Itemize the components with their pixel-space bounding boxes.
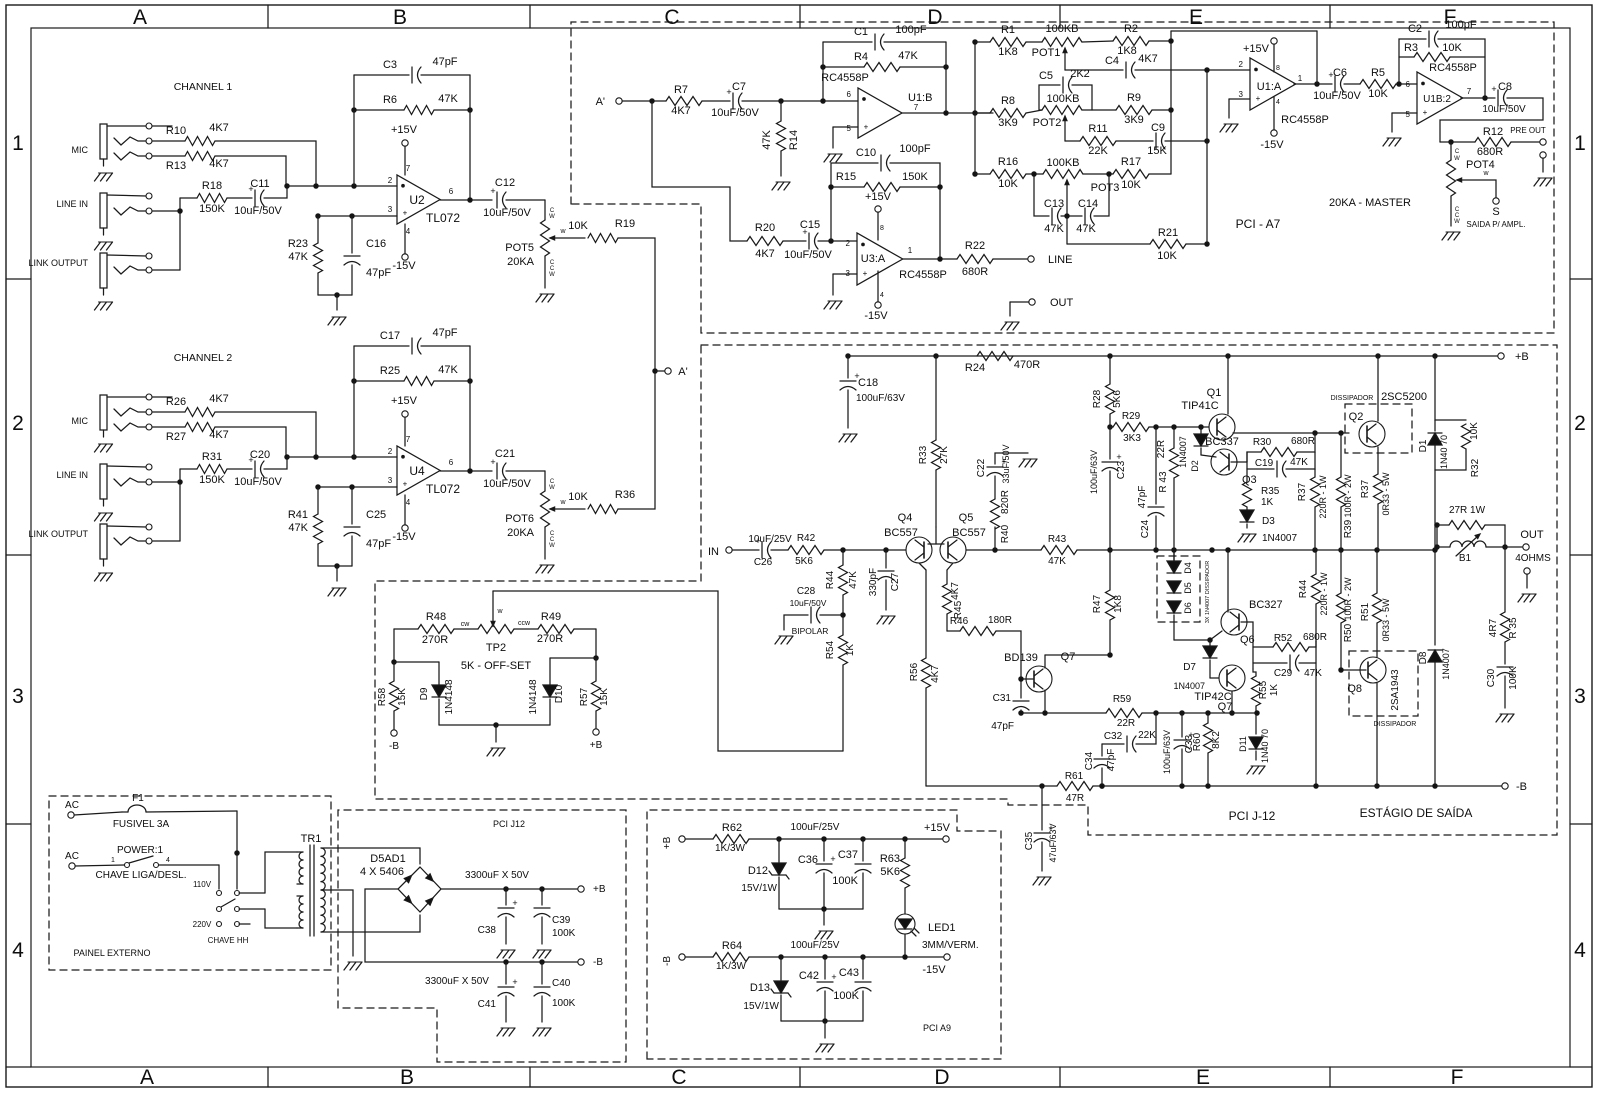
diode D4 — [1167, 550, 1193, 574]
resistor R35 4R7 zobel — [1488, 547, 1519, 664]
wire secondary top — [321, 848, 420, 864]
svg-text:+B: +B — [593, 884, 606, 895]
svg-text:DISSIPADOR: DISSIPADOR — [1331, 395, 1374, 402]
svg-text:MIC: MIC — [72, 416, 89, 426]
diode D2 1N4007 — [1178, 427, 1208, 472]
svg-text:R8: R8 — [1001, 95, 1015, 107]
resistor R60 8K2 — [1192, 713, 1222, 786]
svg-text:5K6: 5K6 — [1112, 390, 1123, 408]
trimpot TP2 5K — [461, 591, 843, 751]
resistor R28 5K6 — [1092, 356, 1123, 429]
svg-text:1K8: 1K8 — [998, 46, 1018, 58]
svg-text:R40: R40 — [1000, 524, 1011, 543]
terminal speaker return — [1524, 568, 1530, 588]
resistor R37 0R33-5W — [1360, 472, 1391, 550]
svg-text:B: B — [400, 1066, 414, 1089]
dashed box PCI J-12 power amp section — [375, 345, 1557, 835]
jack LINE IN channel 2 — [56, 464, 152, 521]
svg-text:6: 6 — [449, 187, 454, 196]
dashed box PCI A9 regulator — [647, 810, 1001, 1059]
svg-text:680R: 680R — [1477, 146, 1503, 158]
svg-text:3: 3 — [388, 205, 393, 214]
svg-text:C24: C24 — [1140, 519, 1151, 538]
svg-text:8K2: 8K2 — [1211, 731, 1222, 749]
svg-text:A': A' — [596, 96, 605, 108]
svg-text:33uF/50V: 33uF/50V — [1001, 444, 1011, 483]
svg-text:LINK OUTPUT: LINK OUTPUT — [28, 529, 88, 539]
wire tone stack right vertical — [1169, 31, 1317, 174]
svg-text:U1:B: U1:B — [908, 92, 932, 104]
svg-text:R25: R25 — [380, 365, 400, 377]
svg-text:47pF: 47pF — [1137, 486, 1148, 509]
svg-text:100pF: 100pF — [895, 24, 926, 36]
svg-text:C32: C32 — [1104, 731, 1123, 742]
svg-text:C14: C14 — [1078, 198, 1098, 210]
svg-text:E: E — [1196, 1066, 1210, 1089]
svg-text:U1:A: U1:A — [1257, 81, 1282, 93]
diode D8 1N4007 — [1418, 550, 1451, 786]
svg-text:PAINEL EXTERNO: PAINEL EXTERNO — [73, 948, 150, 958]
svg-text:47K: 47K — [1076, 223, 1096, 235]
ground — [1518, 594, 1536, 602]
capacitor C22 33uF/50V — [976, 444, 1028, 483]
svg-text:R35: R35 — [1261, 486, 1280, 497]
ground — [1534, 178, 1552, 186]
svg-text:F1: F1 — [132, 793, 144, 804]
resistor R45 4K7 — [943, 563, 965, 631]
terminal -15V — [922, 954, 950, 976]
svg-text:+B: +B — [1515, 351, 1529, 363]
svg-text:6: 6 — [1406, 80, 1411, 89]
text CW CCW — [461, 620, 531, 628]
resistor R9 3K9 — [1082, 92, 1171, 126]
svg-text:20KA - MASTER: 20KA - MASTER — [1329, 197, 1411, 209]
resistor R39 100R-2W — [1337, 433, 1355, 550]
transformer TR1 — [297, 833, 325, 936]
ground — [775, 636, 793, 644]
svg-text:20KA: 20KA — [507, 256, 535, 268]
svg-text:10uF/50V: 10uF/50V — [790, 598, 827, 608]
svg-text:TL072: TL072 — [426, 211, 460, 225]
wire inverting input node — [287, 184, 397, 188]
svg-text:IN: IN — [708, 546, 719, 558]
svg-text:D4: D4 — [1183, 562, 1193, 574]
resistor R26 4K7 — [152, 393, 316, 457]
svg-text:10uF/50V: 10uF/50V — [483, 207, 531, 219]
svg-text:+B: +B — [662, 836, 673, 849]
svg-text:A: A — [133, 6, 147, 29]
svg-text:POWER:1: POWER:1 — [117, 845, 164, 856]
svg-text:-15V: -15V — [864, 310, 888, 322]
svg-text:10K: 10K — [1442, 42, 1462, 54]
terminal AC line 1 — [65, 800, 122, 818]
capacitor C42 100uF — [799, 957, 837, 1021]
wire offset right — [550, 629, 598, 660]
wire offset left — [392, 629, 439, 664]
svg-text:R19: R19 — [615, 218, 635, 230]
svg-text:R1: R1 — [1001, 24, 1015, 36]
svg-text:R47: R47 — [1092, 594, 1103, 613]
svg-text:680R: 680R — [962, 266, 988, 278]
fuse F1 FUSIVEL 3A — [113, 793, 237, 830]
ground — [487, 748, 505, 756]
wire driver rail — [1019, 711, 1259, 715]
wire VAS line — [1110, 548, 1437, 552]
resistor R41 47K — [288, 487, 323, 566]
svg-text:1K: 1K — [845, 644, 856, 657]
svg-text:2: 2 — [1239, 60, 1244, 69]
svg-text:W: W — [1454, 219, 1460, 225]
svg-text:C26: C26 — [754, 557, 773, 568]
wire secondary bottom — [321, 915, 420, 932]
diode D11 1N4070 — [1238, 729, 1270, 763]
transistor Q1 TIP41C — [1181, 356, 1235, 440]
svg-text:+15V: +15V — [1243, 43, 1270, 55]
svg-text:+: + — [403, 480, 408, 489]
terminal +B offset — [590, 729, 603, 751]
jack MIC channel 2 — [72, 394, 153, 452]
resistor R5 10K — [1360, 67, 1417, 100]
svg-text:PCI - A7: PCI - A7 — [1236, 217, 1281, 231]
svg-text:1: 1 — [1298, 74, 1303, 83]
svg-text:3: 3 — [12, 685, 24, 708]
svg-text:3X 1N4007 DISSIPADOR: 3X 1N4007 DISSIPADOR — [1205, 561, 1211, 624]
svg-text:TR1: TR1 — [301, 833, 322, 845]
svg-text:R30: R30 — [1253, 437, 1272, 448]
ground — [1238, 534, 1256, 542]
svg-text:RC4558P: RC4558P — [1429, 62, 1477, 74]
svg-text:100KB: 100KB — [1046, 157, 1079, 169]
svg-text:4K7: 4K7 — [671, 105, 691, 117]
svg-text:W: W — [549, 543, 555, 549]
svg-text:7: 7 — [406, 164, 411, 173]
svg-text:BC337: BC337 — [1205, 436, 1239, 448]
capacitor C38 3300uF — [478, 889, 518, 944]
svg-text:1N4148: 1N4148 — [444, 679, 455, 714]
svg-text:D12: D12 — [748, 865, 768, 877]
svg-text:110V: 110V — [193, 880, 212, 889]
svg-text:20KA: 20KA — [507, 527, 535, 539]
svg-text:CHAVE HH: CHAVE HH — [208, 936, 249, 945]
svg-text:10K: 10K — [1157, 250, 1177, 262]
svg-text:820R: 820R — [1000, 490, 1011, 514]
svg-text:47pF: 47pF — [991, 721, 1014, 732]
ground — [772, 182, 790, 190]
svg-text:4K7: 4K7 — [209, 393, 229, 405]
resistor R29 3K3 — [1110, 411, 1209, 444]
svg-text:0R33 - 5W: 0R33 - 5W — [1381, 598, 1391, 642]
svg-text:5K6: 5K6 — [795, 556, 813, 567]
ground — [815, 931, 833, 939]
svg-text:R16: R16 — [998, 156, 1018, 168]
svg-text:TL072: TL072 — [426, 482, 460, 496]
ground — [344, 962, 362, 970]
diode D9 1N4148 — [419, 662, 455, 725]
resistor R22 680R — [957, 240, 1028, 278]
svg-text:W: W — [549, 272, 555, 278]
svg-text:15K: 15K — [1147, 145, 1167, 157]
svg-text:22R: 22R — [1156, 440, 1167, 458]
svg-text:R31: R31 — [202, 451, 222, 463]
svg-text:47pF: 47pF — [366, 267, 391, 279]
svg-text:4: 4 — [406, 227, 411, 236]
svg-text:BC557: BC557 — [884, 527, 918, 539]
text CHANNEL 2 — [174, 352, 233, 364]
svg-text:AC: AC — [65, 851, 79, 862]
svg-text:C37: C37 — [838, 849, 858, 861]
svg-text:4K7: 4K7 — [1138, 53, 1158, 65]
svg-text:10uF/50V: 10uF/50V — [234, 476, 282, 488]
svg-text:C39: C39 — [552, 915, 571, 926]
svg-text:2: 2 — [846, 239, 851, 248]
svg-text:W: W — [1454, 156, 1460, 162]
svg-text:C2: C2 — [1408, 23, 1422, 35]
svg-text:15K: 15K — [599, 688, 610, 706]
capacitor C31 47pF — [991, 679, 1029, 732]
svg-text:3: 3 — [388, 476, 393, 485]
power -15V U1:A — [1260, 97, 1284, 151]
svg-text:BIPOLAR: BIPOLAR — [792, 626, 829, 636]
svg-text:C35: C35 — [1024, 831, 1035, 850]
resistor R56 4K7 — [909, 563, 941, 786]
ground — [536, 565, 554, 573]
svg-text:Q5: Q5 — [959, 512, 974, 524]
svg-text:R29: R29 — [1122, 411, 1141, 422]
svg-text:10uF/50V: 10uF/50V — [234, 205, 282, 217]
resistor R6 47K — [352, 93, 472, 115]
selector CHAVE HH 110V/220V — [193, 852, 297, 945]
svg-text:C31: C31 — [993, 693, 1012, 704]
svg-text:RC4558P: RC4558P — [1281, 114, 1329, 126]
svg-text:7: 7 — [1467, 87, 1472, 96]
ground — [1383, 138, 1401, 146]
capacitor C11 10uF/50V — [234, 178, 289, 217]
svg-text:R62: R62 — [722, 822, 742, 834]
svg-text:LINE IN: LINE IN — [56, 470, 88, 480]
wire +B supply rail — [846, 354, 1498, 358]
svg-text:47uF/63V: 47uF/63V — [1048, 823, 1058, 862]
svg-text:DISSIPADOR: DISSIPADOR — [1374, 721, 1417, 728]
wire A' to U3:A — [652, 101, 747, 241]
resistor R19 10K — [568, 218, 655, 371]
svg-text:R18: R18 — [202, 180, 222, 192]
svg-text:15V/1W: 15V/1W — [741, 883, 777, 894]
wire mic stub — [152, 125, 172, 127]
svg-text:C36: C36 — [798, 854, 818, 866]
svg-text:PCI J12: PCI J12 — [493, 819, 525, 829]
ground — [1001, 322, 1019, 330]
svg-text:0R33 - 5W: 0R33 - 5W — [1381, 472, 1391, 516]
svg-text:+15V: +15V — [391, 395, 418, 407]
svg-text:47K: 47K — [1290, 457, 1308, 468]
svg-text:1N40 70: 1N40 70 — [1439, 435, 1449, 469]
svg-text:47pF: 47pF — [432, 56, 457, 68]
svg-text:5K - OFF-SET: 5K - OFF-SET — [461, 660, 532, 672]
svg-text:C1: C1 — [854, 26, 868, 38]
svg-text:-B: -B — [1516, 781, 1527, 793]
svg-text:270R: 270R — [537, 633, 563, 645]
svg-text:POT5: POT5 — [505, 242, 534, 254]
wire switch to selector — [218, 865, 220, 889]
svg-text:LED1: LED1 — [928, 922, 956, 934]
svg-text:R32: R32 — [1470, 458, 1481, 477]
svg-text:D: D — [927, 6, 942, 29]
svg-text:470R: 470R — [1014, 359, 1040, 371]
svg-text:27R 1W: 27R 1W — [1449, 505, 1486, 516]
svg-text:SAIDA P/ AMPL.: SAIDA P/ AMPL. — [1466, 220, 1525, 229]
svg-text:R60: R60 — [1192, 732, 1203, 751]
wire tone stack left vertical — [973, 40, 977, 176]
svg-text:C27: C27 — [890, 572, 901, 591]
capacitor C5 2K2 bypass — [1039, 68, 1092, 110]
svg-text:C41: C41 — [478, 999, 497, 1010]
op-amp U2 TL072 — [388, 164, 461, 236]
svg-text:680R: 680R — [1303, 632, 1327, 643]
capacitor C12 10uF/50V — [483, 177, 545, 219]
svg-text:10K: 10K — [568, 491, 588, 503]
wire -B output rail — [365, 889, 578, 964]
ground — [497, 950, 515, 958]
svg-text:C16: C16 — [366, 238, 386, 250]
svg-text:W: W — [549, 485, 555, 491]
svg-text:R43: R43 — [1048, 534, 1067, 545]
wire U1B:2 output — [1461, 97, 1495, 99]
svg-text:220V: 220V — [193, 920, 212, 929]
svg-text:+B: +B — [590, 740, 603, 751]
svg-text:R3: R3 — [1404, 42, 1418, 54]
resistor R25 47K — [352, 364, 472, 386]
terminal -B regulator — [662, 954, 713, 966]
svg-text:3300uF X 50V: 3300uF X 50V — [425, 976, 489, 987]
capacitor C14 47K — [1065, 172, 1111, 235]
svg-text:R37: R37 — [1297, 482, 1308, 501]
power -15V — [392, 224, 416, 272]
power -15V U3:A — [864, 271, 888, 322]
ground — [1033, 877, 1051, 885]
svg-text:1: 1 — [1574, 132, 1586, 155]
svg-text:2: 2 — [388, 447, 393, 456]
svg-text:-B: -B — [593, 957, 603, 968]
svg-text:Q8: Q8 — [1347, 683, 1362, 695]
svg-text:1N4007: 1N4007 — [1262, 533, 1297, 544]
svg-text:R42: R42 — [797, 533, 816, 544]
potentiometer POT6 20KA — [505, 471, 585, 559]
svg-text:POT3: POT3 — [1091, 182, 1120, 194]
svg-text:W: W — [549, 214, 555, 220]
svg-text:D1: D1 — [1418, 439, 1429, 452]
svg-text:100K: 100K — [1508, 666, 1519, 690]
resistor R42 5K6 — [788, 533, 906, 567]
transistor Q5 BC557 — [940, 512, 986, 563]
svg-text:C7: C7 — [732, 81, 746, 93]
svg-text:C21: C21 — [495, 448, 515, 460]
svg-text:R2: R2 — [1124, 23, 1138, 35]
capacitor C28 10uF/50V BIPOLAR — [784, 586, 843, 636]
svg-text:4OHMS: 4OHMS — [1515, 553, 1551, 564]
svg-text:LINE IN: LINE IN — [56, 199, 88, 209]
svg-text:POT2: POT2 — [1033, 117, 1062, 129]
svg-text:C22: C22 — [976, 458, 987, 477]
svg-text:E: E — [1189, 6, 1203, 29]
svg-text:R11: R11 — [1088, 123, 1107, 135]
svg-text:4: 4 — [880, 292, 884, 299]
svg-text:R59: R59 — [1113, 694, 1132, 705]
capacitor C32 22K — [1102, 713, 1156, 752]
svg-text:4K7: 4K7 — [209, 429, 229, 441]
wire Q5 collector line — [966, 548, 1041, 552]
svg-text:4K7: 4K7 — [209, 122, 229, 134]
potentiometer POT4 20KA master — [1447, 142, 1497, 226]
svg-text:150K: 150K — [199, 203, 225, 215]
svg-text:B1: B1 — [1459, 553, 1472, 564]
svg-text:47K: 47K — [1048, 556, 1066, 567]
svg-text:C17: C17 — [380, 330, 400, 342]
jack LINK OUTPUT channel 1 — [28, 253, 152, 310]
svg-text:5: 5 — [1406, 110, 1411, 119]
svg-text:R44: R44 — [825, 570, 836, 589]
svg-text:R27: R27 — [166, 431, 186, 443]
svg-text:R50: R50 — [1343, 623, 1354, 642]
svg-text:3K9: 3K9 — [1124, 114, 1144, 126]
terminal ground stub — [1540, 152, 1546, 172]
resistor R49 270R — [514, 611, 596, 645]
resistor R14 47K to ground — [761, 101, 800, 176]
svg-text:47K: 47K — [288, 522, 308, 534]
ground — [328, 588, 346, 596]
svg-text:22K: 22K — [1088, 145, 1108, 157]
text 100uF/25V — [791, 822, 840, 833]
resistor R1 1K8 — [975, 24, 1042, 58]
wire feedback right — [469, 75, 471, 200]
wire U3:A pin3 ground — [833, 274, 857, 295]
svg-text:RC4558P: RC4558P — [899, 269, 947, 281]
svg-text:+: + — [403, 209, 408, 218]
svg-text:3: 3 — [1574, 685, 1586, 708]
svg-text:cw: cw — [461, 621, 471, 628]
potentiometer POT1 100KB — [1032, 23, 1082, 70]
ground — [328, 317, 346, 325]
svg-text:100uF/25V: 100uF/25V — [791, 822, 840, 833]
resistor R3 10K feedback — [1399, 42, 1485, 62]
svg-text:A': A' — [678, 366, 687, 378]
svg-text:22K: 22K — [1138, 730, 1156, 741]
svg-text:C4: C4 — [1105, 55, 1119, 67]
capacitor C34 47pF — [1084, 744, 1117, 788]
svg-text:+15V: +15V — [391, 124, 418, 136]
terminal +15V — [924, 822, 951, 842]
wire Q4 Q5 bases — [928, 527, 944, 544]
resistor R48 270R — [394, 611, 478, 646]
svg-text:D5: D5 — [1183, 582, 1193, 594]
text PCI J12 — [493, 819, 525, 829]
svg-text:R7: R7 — [674, 84, 688, 96]
power -15V — [392, 495, 416, 543]
resistor R62 1K/3W — [713, 822, 943, 854]
terminal +B regulator — [662, 836, 713, 849]
svg-text:R 35: R 35 — [1508, 617, 1519, 639]
capacitor C23 100uF/63V — [1089, 427, 1127, 550]
svg-text:4: 4 — [1574, 939, 1586, 962]
svg-text:POT4: POT4 — [1466, 159, 1495, 171]
svg-text:+: + — [1256, 94, 1261, 103]
svg-text:C43: C43 — [839, 967, 859, 979]
potentiometer POT2 100KB — [1033, 93, 1082, 141]
capacitor C25 47pF — [344, 487, 391, 566]
resistor R15 150K feedback — [829, 171, 942, 192]
svg-text:2SC5200: 2SC5200 — [1381, 391, 1427, 403]
transistor Q8 2SA1943 — [1347, 657, 1401, 788]
svg-text:4: 4 — [166, 857, 170, 864]
